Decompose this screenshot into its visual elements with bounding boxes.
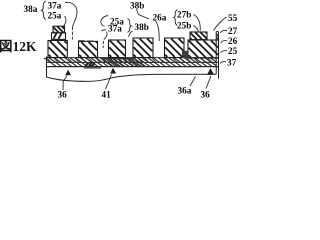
svg-text:55: 55 [228,13,238,23]
svg-text:38b: 38b [130,0,144,10]
svg-text:37a: 37a [108,24,122,34]
svg-text:27b: 27b [177,10,191,20]
svg-text:25a: 25a [48,11,62,21]
svg-text:36a: 36a [178,85,192,95]
svg-text:27: 27 [228,26,238,36]
svg-text:38a: 38a [24,4,38,14]
svg-text:36: 36 [201,89,211,99]
svg-text:37a: 37a [48,1,62,11]
svg-text:37: 37 [227,57,237,67]
svg-text:25: 25 [228,46,238,56]
svg-text:41: 41 [102,89,112,99]
svg-text:図12K: 図12K [0,39,37,54]
svg-text:26a: 26a [153,13,167,23]
svg-text:26: 26 [228,36,238,46]
svg-text:25b: 25b [177,20,191,30]
svg-text:38b: 38b [135,22,149,32]
svg-text:36: 36 [58,89,68,99]
